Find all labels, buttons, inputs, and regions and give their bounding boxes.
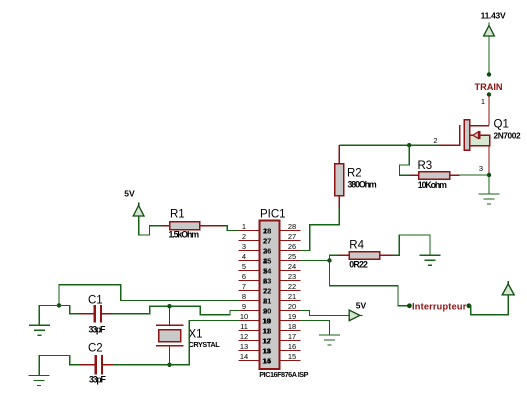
resistor R4 left lead: [339, 254, 350, 256]
transistor Q1 body-diode arrow: [470, 131, 480, 139]
resistor R4 body: [349, 252, 380, 260]
svg-text:22: 22: [288, 282, 296, 291]
svg-text:PIC16F876A ISP: PIC16F876A ISP: [259, 370, 308, 379]
PIC1 pin 3 stub: [239, 250, 260, 252]
svg-text:0R22: 0R22: [349, 260, 368, 270]
pin number 24: [288, 262, 296, 271]
transistor Q1 gate electrode: [459, 125, 461, 146]
PIC1 pin 27 stub: [279, 240, 300, 242]
svg-text:C1: C1: [88, 294, 103, 306]
node Q1 source junction dot: [487, 173, 491, 177]
svg-text:2: 2: [242, 232, 246, 241]
resistor R1 left lead: [161, 225, 170, 227]
capacitor C1 plates: [94, 305, 103, 323]
svg-text:3: 3: [479, 164, 483, 173]
node R4 junction dot: [327, 258, 331, 262]
resistor R1 right lead: [200, 225, 224, 227]
pin number 22: [288, 282, 296, 291]
PIC1 pin 22 stub: [279, 290, 300, 292]
svg-text:19: 19: [263, 316, 271, 325]
pin number 25: [288, 252, 296, 261]
svg-text:17: 17: [288, 332, 296, 341]
node TRAIN junction dot: [487, 72, 491, 76]
transistor Q1 gate wire: [438, 144, 459, 146]
inside pin number 17: [263, 336, 271, 345]
svg-text:25: 25: [263, 256, 271, 265]
inside pin number 28: [263, 226, 271, 235]
inside pin number 27: [263, 236, 271, 245]
pin number 1: [242, 222, 246, 231]
resistor R3 body: [419, 172, 450, 180]
wire pin25 to node: [300, 260, 329, 262]
PIC1 pin 26 stub: [279, 250, 300, 252]
PIC1 pin 11 stub: [239, 330, 260, 332]
svg-text:27: 27: [263, 236, 271, 245]
svg-text:33pF: 33pF: [89, 374, 107, 384]
label R2: [347, 168, 362, 180]
svg-text:R1: R1: [170, 209, 185, 221]
label C1: [88, 294, 103, 306]
wire R3 to Q1 source node: [459, 174, 489, 176]
inside pin number 18: [263, 326, 271, 335]
label X1: [189, 328, 203, 340]
value 0R22: [349, 260, 368, 270]
crystal X1 body: [159, 330, 181, 342]
PIC1 pin 19 stub: [279, 320, 300, 322]
svg-text:C2: C2: [88, 343, 103, 355]
crystal X1 top lead: [169, 306, 171, 324]
pin number 6: [242, 272, 246, 281]
pin number 4: [242, 252, 246, 261]
inside pin number 21: [263, 296, 271, 305]
svg-text:2: 2: [433, 136, 437, 145]
pin number 5: [242, 262, 246, 271]
pin number 7: [242, 282, 246, 291]
svg-text:27: 27: [288, 232, 296, 241]
inside pin number 16: [263, 346, 271, 355]
PIC1 pin 21 stub: [279, 300, 300, 302]
resistor R2 body: [335, 164, 344, 196]
inside pin number 4: [263, 256, 268, 265]
wire dot to C1: [59, 305, 80, 313]
pin number 20: [288, 302, 296, 311]
wire pin8 net: [59, 285, 239, 304]
svg-text:8: 8: [242, 292, 246, 301]
svg-text:13: 13: [240, 342, 248, 351]
pin number 3: [242, 242, 246, 251]
svg-text:18: 18: [263, 326, 271, 335]
PIC1 pin 2 stub: [239, 240, 260, 242]
node crystal top junction dot: [167, 304, 171, 308]
transistor Q1 channel plate: [464, 120, 469, 151]
svg-text:4: 4: [242, 252, 246, 261]
value 10Kohm: [418, 180, 447, 190]
svg-text:3: 3: [242, 242, 246, 251]
PIC1 pin 24 stub: [279, 270, 300, 272]
svg-text:10: 10: [240, 312, 248, 321]
PIC1 pin 15 stub: [279, 360, 300, 362]
inside pin number 22: [263, 286, 271, 295]
crystal X1 bottom plate line: [156, 345, 184, 347]
svg-text:R2: R2: [347, 168, 362, 180]
svg-text:5V: 5V: [124, 189, 135, 199]
svg-text:X1: X1: [189, 328, 203, 340]
pin number 28: [288, 222, 296, 231]
capacitor C2 right lead: [103, 364, 113, 366]
pin 2 label of Q1: [433, 136, 437, 145]
resistor R1 body: [170, 222, 200, 230]
svg-text:16: 16: [263, 346, 271, 355]
power arrow bottom right: [502, 281, 514, 295]
svg-text:19: 19: [288, 312, 296, 321]
svg-text:R4: R4: [349, 239, 364, 251]
svg-text:16: 16: [288, 342, 296, 351]
power flag 11.43V label: [481, 11, 506, 21]
resistor R4 right lead: [380, 254, 393, 256]
inside pin number 7: [263, 286, 267, 295]
wire gate net to R3: [400, 145, 411, 175]
pin number 19: [288, 312, 296, 321]
value 33pF C2: [89, 374, 107, 384]
inside pin number 25: [263, 256, 271, 265]
power flag 5V arrow right: [349, 310, 362, 321]
inside pin number 12: [262, 336, 270, 345]
pin number 16: [288, 342, 296, 351]
wire R4 to ground: [393, 235, 430, 255]
PIC1 pin 7 stub: [239, 290, 260, 292]
wire R1 to pin1: [224, 226, 239, 231]
svg-text:5: 5: [242, 262, 246, 271]
pin number 12: [240, 332, 248, 341]
svg-text:25: 25: [288, 252, 296, 261]
pin number 18: [288, 322, 296, 331]
label R4: [349, 239, 364, 251]
svg-text:PIC1: PIC1: [260, 208, 286, 220]
svg-text:14: 14: [240, 352, 248, 361]
svg-text:17: 17: [263, 336, 271, 345]
svg-text:2N7002: 2N7002: [494, 131, 521, 141]
wire C2 to crystal bottom: [112, 364, 170, 366]
PIC1 pin 9 stub: [239, 310, 260, 312]
inside pin number 26: [263, 246, 271, 255]
wire gate net horizontal: [339, 144, 438, 146]
svg-text:1: 1: [242, 222, 246, 231]
switch terminal dot right: [467, 303, 472, 308]
PIC1 pin 12 stub: [239, 340, 260, 342]
resistor R3 left lead: [410, 174, 419, 176]
label R3: [418, 160, 433, 172]
svg-text:Q1: Q1: [494, 119, 509, 131]
IC subtitle PIC16F876A ISP: [259, 370, 308, 379]
capacitor C1 right lead: [102, 313, 113, 315]
capacitor C2 plates: [95, 355, 104, 375]
transistor Q1 body box: [470, 135, 490, 146]
wire source to ground: [488, 177, 490, 194]
pin 3 label of Q1: [479, 164, 483, 173]
inside pin number 1: [263, 226, 267, 235]
pin number 27: [288, 232, 296, 241]
PIC1 pin 5 stub: [239, 270, 260, 272]
power flag 5V label left: [124, 189, 135, 199]
wire 5V to R1: [139, 216, 162, 235]
pin number 10: [240, 312, 248, 321]
svg-text:18: 18: [288, 322, 296, 331]
resistor R2 top lead: [338, 145, 340, 164]
wire crystal bottom to pin10: [170, 321, 239, 365]
wire R2 to pin26: [300, 207, 339, 250]
wire C2 to left ground 2: [39, 355, 80, 375]
net label TRAIN: [474, 82, 502, 92]
wire pin20 to 5V: [300, 311, 349, 316]
PIC1 pin 16 stub: [279, 350, 300, 352]
pin number 21: [288, 292, 296, 301]
value CRYSTAL: [189, 340, 221, 349]
svg-text:21: 21: [263, 296, 271, 305]
wire pin19 to ground: [300, 321, 329, 335]
PIC1 pin 10 stub: [239, 320, 260, 322]
PIC1 pin 1 stub: [239, 230, 260, 232]
PIC1 pin 28 stub: [279, 230, 300, 232]
svg-text:Interrupteur: Interrupteur: [412, 302, 467, 312]
PIC1 pin 25 stub: [279, 260, 300, 262]
ground left of C2: [29, 376, 50, 386]
pin number 14: [240, 352, 248, 361]
svg-text:26: 26: [263, 246, 271, 255]
inside pin number 6: [263, 276, 267, 285]
ground right of R4: [419, 255, 440, 265]
node gate net junction dot: [407, 143, 411, 147]
crystal X1 top plate line: [156, 324, 184, 326]
inside pin number 20: [263, 306, 271, 315]
PIC1 pin 23 stub: [279, 280, 300, 282]
PIC1 pin 13 stub: [239, 350, 260, 352]
svg-text:24: 24: [288, 262, 296, 271]
switch terminal dot left: [407, 303, 412, 308]
power flag 11.43V arrow: [484, 23, 495, 37]
ground below Q1: [479, 194, 500, 204]
pin number 17: [288, 332, 296, 341]
svg-text:33pF: 33pF: [89, 324, 107, 334]
PIC1 pin 8 stub: [239, 300, 260, 302]
svg-text:12: 12: [240, 332, 248, 341]
wire switch to power arrow: [469, 295, 508, 315]
net label Interrupteur: [412, 302, 467, 312]
transistor Q1 drain stub: [470, 125, 489, 127]
svg-text:CRYSTAL: CRYSTAL: [189, 340, 221, 349]
svg-text:11.43V: 11.43V: [481, 11, 506, 21]
pin number 2: [242, 232, 246, 241]
ground left of C1: [29, 325, 50, 335]
wire node down to switch: [330, 261, 409, 306]
svg-text:26: 26: [288, 242, 296, 251]
inside pin number 23: [263, 276, 271, 285]
crystal X1 bottom lead: [169, 346, 171, 364]
value 380Ohm: [348, 180, 377, 190]
svg-text:1: 1: [481, 97, 485, 106]
svg-text:24: 24: [263, 266, 272, 275]
label R1: [170, 209, 185, 221]
capacitor C1 left lead: [79, 313, 94, 315]
inside pin number 3: [263, 246, 267, 255]
svg-text:28: 28: [263, 226, 271, 235]
value 1.5kOhm: [169, 229, 200, 239]
svg-text:6: 6: [242, 272, 246, 281]
label Q1: [494, 119, 509, 131]
wire node to R4: [330, 255, 340, 260]
inside pin number 11: [262, 326, 270, 335]
wire crystal top to pin9: [170, 306, 239, 315]
pin number 15: [288, 352, 296, 361]
svg-text:TRAIN: TRAIN: [474, 82, 502, 92]
PIC1 pin 4 stub: [239, 260, 260, 262]
PIC1 pin 18 stub: [279, 330, 300, 332]
value 33pF C1: [89, 324, 107, 334]
svg-text:23: 23: [263, 276, 271, 285]
svg-text:R3: R3: [418, 160, 433, 172]
inside pin number 24: [263, 266, 272, 275]
inside pin number 14: [262, 356, 271, 365]
node crystal bottom junction dot: [167, 363, 171, 367]
power flag 5V label right: [356, 301, 367, 311]
IC U1 PIC16F876A body: [260, 220, 280, 368]
svg-text:20: 20: [263, 306, 271, 315]
svg-text:23: 23: [288, 272, 296, 281]
resistor R2 bottom lead: [338, 196, 340, 208]
inside pin number 19: [263, 316, 271, 325]
pin number 23: [288, 272, 296, 281]
pin number 11: [240, 322, 248, 331]
inside pin number 9: [263, 306, 267, 315]
svg-text:380Ohm: 380Ohm: [348, 180, 377, 190]
resistor R3 right lead: [450, 174, 460, 176]
pin number 9: [242, 302, 246, 311]
svg-text:15: 15: [288, 352, 296, 361]
wire 11.43V to TRAIN node: [488, 36, 490, 73]
wire C1 to crystal top node: [112, 306, 168, 314]
PIC1 pin 6 stub: [239, 280, 260, 282]
svg-text:5V: 5V: [356, 301, 367, 311]
svg-text:7: 7: [242, 282, 246, 291]
svg-text:1.5kOhm: 1.5kOhm: [169, 229, 200, 239]
capacitor C2 left lead: [80, 364, 95, 366]
svg-text:22: 22: [263, 286, 271, 295]
inside pin number 10: [262, 316, 270, 325]
svg-text:9: 9: [242, 302, 246, 311]
svg-text:21: 21: [288, 292, 296, 301]
pin number 8: [242, 292, 246, 301]
pin 1 label of Q1: [481, 97, 485, 106]
inside pin number 5: [263, 266, 267, 275]
svg-text:20: 20: [288, 302, 296, 311]
ground below pin19: [319, 335, 340, 345]
PIC1 pin 17 stub: [279, 340, 300, 342]
inside pin number 8: [263, 296, 267, 305]
svg-text:11: 11: [240, 322, 248, 331]
inside pin number 15: [263, 356, 271, 365]
label C2: [88, 343, 103, 355]
inside pin number 2: [263, 236, 267, 245]
svg-text:15: 15: [263, 356, 271, 365]
svg-text:10Kohm: 10Kohm: [418, 180, 447, 190]
wire TRAIN to Q1 drain: [488, 95, 490, 126]
value 2N7002: [494, 131, 521, 141]
label PIC1: [260, 208, 286, 220]
pin number 13: [240, 342, 248, 351]
PIC1 pin 20 stub: [279, 310, 300, 312]
pin number 26: [288, 242, 296, 251]
inside pin number 13: [262, 346, 270, 355]
PIC1 pin 14 stub: [239, 360, 260, 362]
node below TRAIN dot: [487, 92, 491, 96]
wire dot to left ground: [39, 305, 59, 325]
node C1-left junction dot: [57, 303, 61, 307]
wire Q1 source down: [488, 146, 490, 173]
power flag 5V arrow left: [133, 203, 144, 217]
svg-text:28: 28: [288, 222, 296, 231]
